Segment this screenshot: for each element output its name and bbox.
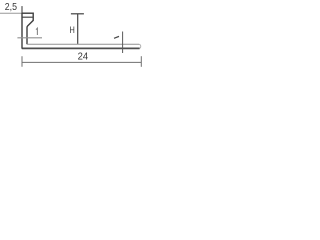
extension tick left of 24 [21, 56, 23, 67]
profile outer wall [21, 13, 23, 49]
profile top bead and inner wall [22, 13, 34, 44]
dimension line 2,5 [0, 12, 34, 14]
dimension line 24 [22, 61, 141, 63]
svg-text:2,5: 2,5 [5, 2, 17, 13]
dimension H vertical line [77, 14, 79, 44]
profile flange bottom edge [22, 47, 140, 49]
profile flange top edge [27, 43, 139, 45]
svg-text:H: H [70, 25, 75, 36]
dimension line 1 (flange thickness, vertical) [122, 32, 124, 54]
extension tick right of 24 [140, 56, 142, 67]
profile bead hem underside [22, 16, 33, 18]
label 1 rotated (flange thickness) [114, 36, 119, 38]
svg-text:24: 24 [78, 52, 89, 63]
dimension H top bar [71, 13, 84, 15]
label 1 (wall thickness) [36, 28, 37, 35]
profile flange rounded end [139, 44, 141, 48]
dimension line 1 (wall thickness) [17, 37, 42, 39]
extension line left of 2,5 [21, 6, 23, 13]
